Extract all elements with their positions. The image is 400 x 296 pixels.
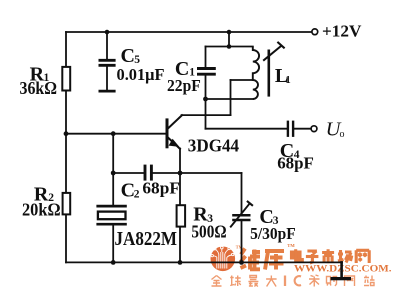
- svg-text:500Ω: 500Ω: [191, 222, 226, 242]
- svg-text:5/30pF: 5/30pF: [250, 224, 296, 243]
- svg-text:1: 1: [285, 74, 291, 86]
- svg-text:2: 2: [134, 189, 140, 201]
- svg-text:22pF: 22pF: [167, 76, 201, 95]
- svg-text:o: o: [340, 129, 345, 140]
- svg-text:+12V: +12V: [322, 21, 362, 40]
- svg-text:JA822M: JA822M: [115, 228, 178, 250]
- svg-text:0.01μF: 0.01μF: [117, 65, 165, 84]
- svg-text:20kΩ: 20kΩ: [22, 200, 61, 220]
- svg-text:5: 5: [134, 54, 140, 66]
- svg-text:36kΩ: 36kΩ: [20, 78, 58, 98]
- svg-text:3DG44: 3DG44: [188, 136, 239, 156]
- svg-text:C: C: [121, 45, 135, 67]
- svg-text:68pF: 68pF: [277, 154, 314, 173]
- svg-text:68pF: 68pF: [142, 178, 180, 197]
- svg-text:TM: TM: [287, 243, 295, 248]
